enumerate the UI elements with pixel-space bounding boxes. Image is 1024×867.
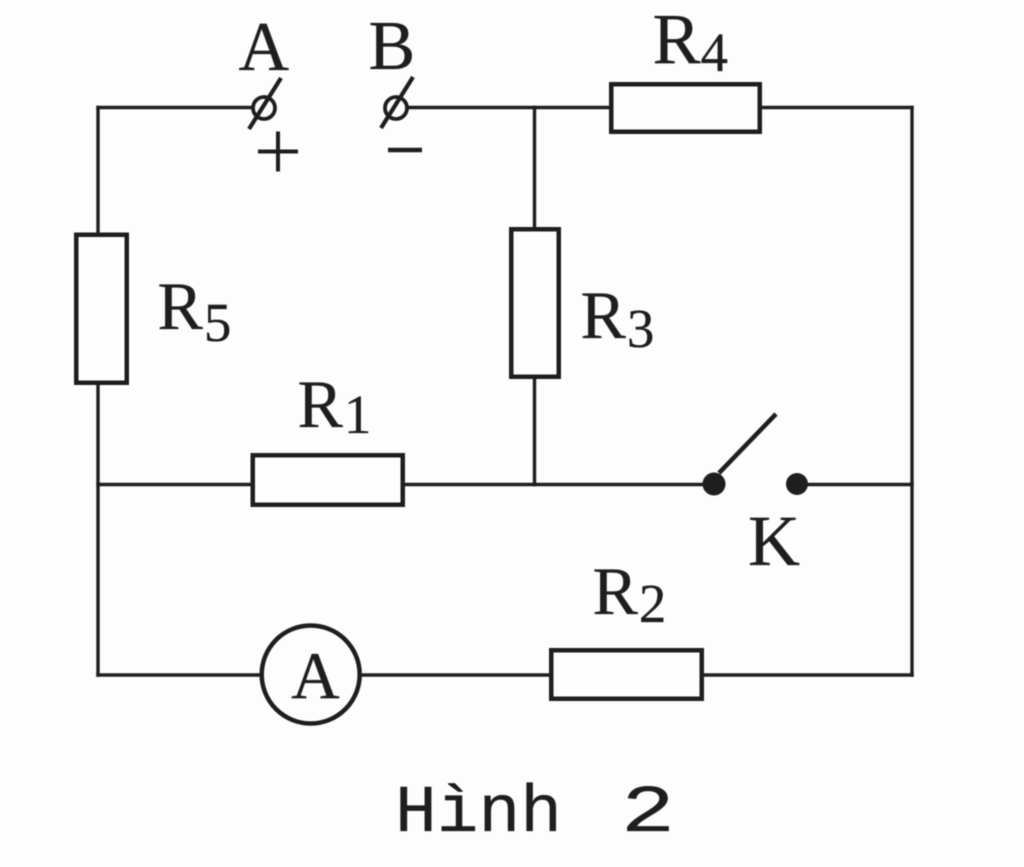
svg-text:R4: R4 [653, 0, 729, 83]
svg-text:R3: R3 [581, 277, 655, 359]
wire ammeter to R2 [363, 673, 550, 676]
ammeter A1 [262, 626, 360, 724]
svg-text:A: A [239, 9, 290, 86]
wire R2 to bottom-right corner [704, 673, 912, 676]
plus sign [258, 132, 298, 172]
wire R1 to switch [405, 483, 714, 486]
svg-text:R2: R2 [593, 553, 667, 634]
wire R3 top vertical [533, 108, 536, 228]
resistor R3 [511, 229, 559, 377]
wire bottom left to ammeter [98, 673, 260, 676]
svg-text:Hình: Hình [395, 776, 562, 852]
wire R3 bottom vertical [533, 379, 536, 485]
svg-text:R5: R5 [158, 268, 232, 353]
svg-text:R1: R1 [298, 366, 372, 445]
wire R4 right to top-right corner [762, 106, 912, 109]
wire right vertical [910, 108, 913, 676]
terminal B [381, 77, 413, 128]
minus sign [388, 148, 422, 153]
svg-text:B: B [369, 8, 416, 85]
resistor R5 [76, 235, 127, 383]
svg-text:K: K [748, 501, 800, 581]
resistor R1 [253, 455, 403, 505]
wire middle left to R1 [98, 483, 250, 486]
resistor R4 [611, 84, 760, 132]
svg-text:A: A [291, 639, 339, 713]
wire switch to right vertical [797, 483, 912, 486]
wire top-left horizontal [98, 106, 253, 109]
wire left vertical upper [96, 108, 99, 234]
resistor R2 [551, 650, 702, 699]
wire left vertical lower [96, 385, 99, 675]
switch K [703, 414, 809, 496]
svg-text:2: 2 [621, 776, 675, 852]
wire top from terminal B to R4 [408, 106, 610, 109]
terminal A [249, 78, 281, 129]
